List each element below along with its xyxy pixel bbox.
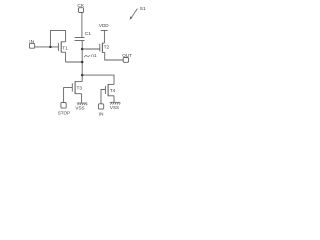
transistor T3 drain stub: [75, 81, 82, 83]
transistor T4 source stub: [108, 95, 114, 97]
wire IN pad to T1 gate: [35, 46, 59, 48]
ground VSS right: [110, 102, 121, 104]
transistor T4 gate bar: [104, 86, 106, 94]
svg-text:n1: n1: [91, 53, 97, 59]
svg-text:S1: S1: [140, 6, 146, 12]
wire T4 gate to IN pad: [101, 90, 105, 104]
wire VDD to T2 drain: [103, 31, 105, 44]
power rail VDD bar: [101, 30, 108, 32]
transistor T3 gate bar: [71, 83, 73, 91]
transistor T3 source stub: [75, 93, 82, 95]
wire T1 source down: [65, 52, 67, 62]
transistor T1 source stub: [61, 51, 65, 53]
capacitor C1 bottom plate: [75, 40, 85, 42]
wire T2 source to OUT: [105, 52, 124, 60]
wire center vertical n1 column: [81, 41, 83, 82]
transistor T1 drain stub: [61, 41, 65, 43]
node n1 leader squiggle: [84, 55, 90, 57]
terminal pad STOP: [61, 103, 66, 109]
transistor T1 channel bar: [60, 42, 62, 53]
svg-text:VSS: VSS: [75, 106, 84, 111]
terminal pad OUT: [123, 58, 128, 63]
svg-text:STOP: STOP: [58, 111, 70, 116]
node junction dot bottom branch: [81, 74, 84, 77]
wire node n1 to T2 gate: [82, 48, 100, 50]
transistor T4 drain stub: [108, 83, 114, 85]
svg-text:VDD: VDD: [99, 23, 109, 28]
wire T3 gate to STOP pad: [64, 88, 73, 103]
node junction dot n1 lower: [81, 61, 84, 64]
terminal pad IN bottom: [98, 104, 103, 109]
wire bottom branch to T4 drain: [82, 75, 114, 84]
transistor T2 channel bar: [101, 43, 103, 53]
transistor T2 gate bar: [99, 44, 101, 52]
svg-text:T4: T4: [110, 88, 116, 94]
callout arrow S1: [132, 9, 138, 18]
svg-text:VSS: VSS: [110, 105, 119, 110]
terminal pad CK: [79, 8, 84, 13]
terminal pad IN: [29, 43, 34, 48]
transistor T2 source stub: [102, 51, 104, 53]
svg-text:T3: T3: [77, 85, 83, 91]
wire T1 drain-gate feedback loop: [50, 31, 65, 47]
svg-text:C1: C1: [85, 31, 91, 37]
ground VSS left: [77, 103, 88, 105]
node junction dot n1 gate tap: [81, 48, 84, 51]
node junction dot IN/loop: [49, 46, 52, 49]
transistor T2 drain stub: [102, 42, 104, 44]
svg-text:T1: T1: [62, 46, 68, 52]
svg-text:IN: IN: [99, 111, 104, 116]
transistor T4 channel bar: [107, 84, 109, 96]
transistor T1 gate bar: [57, 43, 59, 51]
capacitor C1 top plate: [75, 37, 85, 39]
wire T1 source to node n1: [66, 61, 83, 63]
svg-text:T2: T2: [104, 45, 110, 51]
wire T4 source to ground: [113, 96, 115, 102]
wire T3 source to ground: [81, 94, 83, 103]
wire CK pad to C1 top plate: [81, 13, 83, 38]
transistor T3 channel bar: [74, 81, 76, 94]
